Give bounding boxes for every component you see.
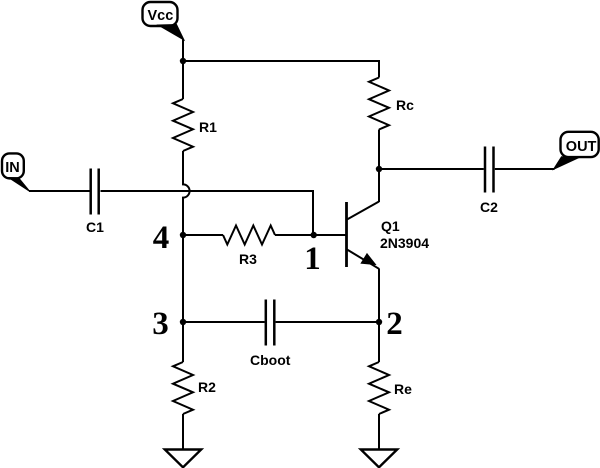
wire node3 to Cboot xyxy=(183,321,265,323)
ground right xyxy=(361,450,397,468)
svg-text:2: 2 xyxy=(386,306,403,342)
svg-text:Cboot: Cboot xyxy=(250,352,291,368)
wire C1 to base corner xyxy=(101,191,314,235)
wire C2 to OUT xyxy=(495,168,555,170)
wire collector node to C2 xyxy=(379,168,484,170)
node collector junction xyxy=(376,166,382,172)
resistor Rc xyxy=(369,78,414,130)
svg-text:R3: R3 xyxy=(239,251,257,267)
wire node4 to node3 xyxy=(182,235,184,322)
resistor Re xyxy=(369,362,412,414)
wire emitter xyxy=(378,269,380,323)
svg-text:IN: IN xyxy=(5,160,20,176)
flag Vcc xyxy=(143,2,185,40)
node 1 xyxy=(304,232,321,277)
flag IN xyxy=(2,153,30,191)
wire Vcc stub xyxy=(182,39,184,61)
svg-text:3: 3 xyxy=(152,306,169,342)
wire Re to ground xyxy=(378,414,380,449)
transistor Q1 2N3904 xyxy=(347,202,430,269)
node 2 xyxy=(376,306,403,342)
node 3 xyxy=(152,306,186,342)
svg-text:Vcc: Vcc xyxy=(148,8,174,24)
wire R1 top xyxy=(182,61,184,99)
wire Rc bottom to collector node xyxy=(378,130,380,170)
svg-text:4: 4 xyxy=(153,220,170,256)
ground left xyxy=(165,450,201,468)
flag OUT xyxy=(554,132,599,170)
svg-text:2N3904: 2N3904 xyxy=(380,235,429,251)
svg-text:Rc: Rc xyxy=(396,97,414,113)
svg-text:C1: C1 xyxy=(86,219,104,235)
svg-text:R1: R1 xyxy=(199,119,217,135)
node 4 xyxy=(153,220,186,256)
wire collector xyxy=(378,169,380,202)
svg-text:R2: R2 xyxy=(198,379,216,395)
wire R2 to ground xyxy=(182,414,184,449)
wire top rail from Vcc junction to Rc xyxy=(183,61,379,78)
wire Cboot to node2 xyxy=(276,321,379,323)
svg-text:C2: C2 xyxy=(480,199,498,215)
wire node1 to base xyxy=(314,234,346,236)
resistor R2 xyxy=(173,362,216,414)
resistor R1 xyxy=(173,99,217,151)
wire node3 to R2 xyxy=(182,322,184,362)
svg-text:OUT: OUT xyxy=(566,139,597,155)
capacitor C1 xyxy=(86,169,104,236)
wire R1 bottom with hop over IN wire xyxy=(183,151,190,235)
svg-text:Re: Re xyxy=(394,381,412,397)
wire node2 to Re xyxy=(378,322,380,362)
capacitor Cboot xyxy=(250,300,291,369)
node Vcc rail junction xyxy=(180,58,186,64)
resistor R3 xyxy=(223,226,275,268)
wire IN to C1 xyxy=(29,190,90,192)
wire node4 to R3 xyxy=(183,234,223,236)
capacitor C2 xyxy=(480,147,498,216)
svg-text:1: 1 xyxy=(304,241,321,277)
wire R3 to node1 xyxy=(275,234,314,236)
svg-text:Q1: Q1 xyxy=(381,218,400,234)
